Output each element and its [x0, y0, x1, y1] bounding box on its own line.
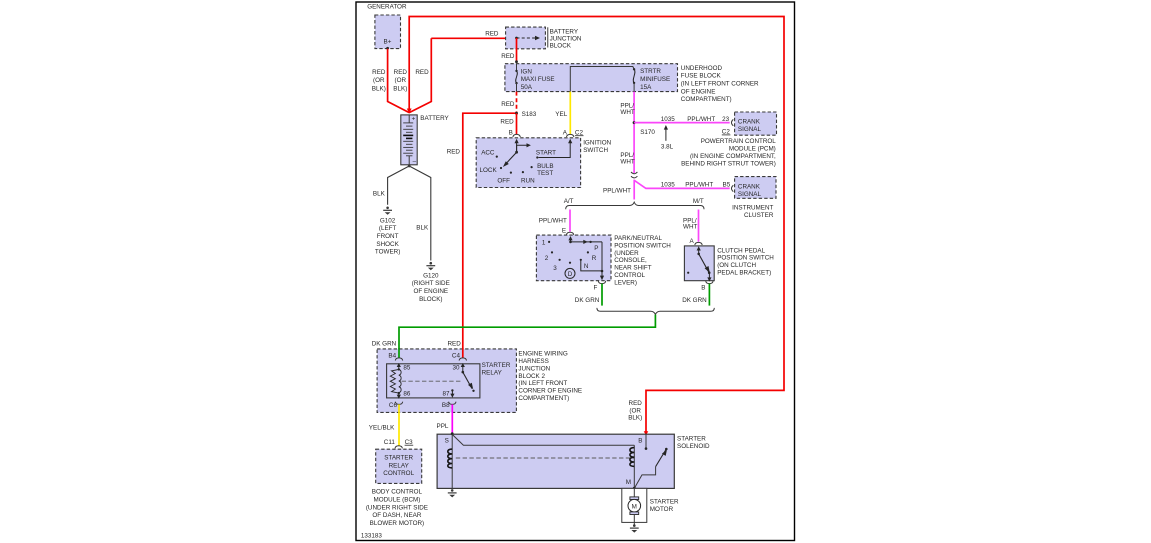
svg-text:M/T: M/T	[693, 198, 704, 205]
svg-text:STARTER: STARTER	[677, 436, 706, 443]
svg-text:PARK/NEUTRAL: PARK/NEUTRAL	[614, 235, 662, 242]
node clutch lower dot	[708, 271, 711, 274]
contact dot LOCK	[500, 167, 502, 169]
connector hat BCM	[395, 446, 402, 449]
switch branch arrow right	[517, 145, 527, 152]
connector cup C6	[395, 402, 402, 405]
svg-text:NEAR SHIFT: NEAR SHIFT	[614, 265, 652, 272]
svg-text:G102: G102	[380, 217, 396, 224]
svg-text:RED: RED	[372, 69, 386, 76]
svg-text:BULB: BULB	[537, 163, 553, 170]
svg-text:S170: S170	[640, 129, 655, 136]
relay 30 terminal arrow	[462, 367, 464, 373]
relay coil feed arrows	[398, 367, 400, 370]
node clutch input dot	[697, 253, 700, 256]
battery box	[401, 115, 417, 165]
svg-text:START: START	[536, 149, 556, 156]
fuse STRTR MINIFUSE 15A	[633, 68, 635, 70]
svg-text:DK GRN: DK GRN	[372, 341, 397, 348]
svg-text:BATTERY: BATTERY	[420, 115, 449, 122]
ground G120	[426, 262, 435, 270]
contact dot START	[536, 156, 538, 158]
wire RED junction block to fuse block	[516, 38, 518, 62]
svg-text:B5: B5	[723, 182, 731, 189]
svg-text:TEST: TEST	[537, 170, 553, 177]
generator box	[375, 15, 401, 49]
svg-text:(IN ENGINE COMPARTMENT,: (IN ENGINE COMPARTMENT,	[690, 153, 776, 160]
svg-text:BLK): BLK)	[393, 85, 407, 92]
svg-text:+: +	[412, 116, 416, 123]
svg-text:BEHIND RIGHT STRUT TOWER): BEHIND RIGHT STRUT TOWER)	[681, 160, 776, 167]
node input dot	[569, 241, 572, 244]
svg-text:WHT: WHT	[683, 224, 697, 231]
svg-text:STRTR: STRTR	[640, 68, 661, 75]
node armature tip dot	[472, 390, 474, 392]
node output dot	[601, 270, 604, 273]
relay internal dashed link	[402, 380, 463, 382]
battery plates	[403, 123, 413, 156]
svg-text:DK GRN: DK GRN	[575, 297, 600, 304]
wire PPL/WHT branch to instrument cluster crank signal	[634, 180, 730, 188]
svg-text:PPL/WHT: PPL/WHT	[685, 182, 713, 189]
svg-text:SOLENOID: SOLENOID	[677, 443, 710, 450]
svg-text:RED: RED	[394, 69, 408, 76]
svg-text:BLK: BLK	[373, 190, 386, 197]
svg-text:A/T: A/T	[564, 198, 574, 205]
svg-text:1035: 1035	[661, 182, 676, 189]
svg-text:3: 3	[553, 265, 557, 272]
wire clutch output down	[708, 273, 710, 281]
svg-text:2: 2	[545, 255, 549, 262]
arrowhead RED into solenoid B	[644, 431, 649, 435]
battery internal stem top	[408, 115, 410, 123]
svg-text:B4: B4	[388, 353, 396, 360]
svg-text:E: E	[562, 227, 566, 234]
wire M to motor	[633, 488, 635, 497]
svg-text:C11: C11	[384, 439, 396, 446]
node coil bottom dot	[398, 392, 400, 394]
relay coil winding bumps	[399, 369, 401, 393]
svg-text:ENGINE WIRING: ENGINE WIRING	[518, 351, 567, 358]
svg-text:OF DASH, NEAR: OF DASH, NEAR	[372, 512, 421, 519]
svg-text:BLK: BLK	[416, 225, 429, 232]
connector hat C4	[459, 358, 466, 361]
wire PPL/WHT A/T branch	[569, 210, 571, 232]
starter relay control box	[376, 449, 422, 483]
contact dot RUN	[522, 171, 524, 173]
svg-text:JUNCTION: JUNCTION	[518, 365, 550, 372]
wire YEL fuse block to ignition switch A	[569, 92, 571, 135]
svg-text:SIGNAL: SIGNAL	[738, 191, 762, 198]
svg-text:30: 30	[453, 365, 461, 372]
node solenoid S dot	[451, 432, 454, 435]
wire RED to battery junction block	[409, 38, 431, 112]
crank signal box PCM	[735, 112, 777, 135]
svg-text:15A: 15A	[640, 84, 652, 91]
svg-text:(UNDER RIGHT SIDE: (UNDER RIGHT SIDE	[366, 504, 428, 511]
svg-text:B+: B+	[384, 38, 392, 45]
wire N contact to output	[581, 260, 602, 271]
solenoid mechanical dashed link	[456, 457, 634, 459]
svg-text:HARNESS: HARNESS	[518, 358, 548, 365]
svg-text:G120: G120	[423, 272, 439, 279]
svg-text:JUNCTION: JUNCTION	[550, 36, 582, 43]
switch lever toward LOCK	[506, 152, 517, 164]
svg-text:RED: RED	[629, 400, 643, 407]
internal feeder wire to STRTR fuse	[570, 67, 634, 92]
wire RED (OR BLK) generator B+ to battery	[388, 49, 410, 113]
node S183	[515, 112, 518, 115]
svg-text:TOWER): TOWER)	[375, 249, 400, 256]
svg-text:CRANK: CRANK	[738, 119, 761, 126]
svg-text:1: 1	[542, 240, 546, 247]
svg-text:SWITCH: SWITCH	[583, 147, 608, 154]
svg-text:–: –	[413, 158, 417, 165]
wire YEL/BLK relay to BCM	[398, 404, 400, 445]
svg-text:CLUTCH PEDAL: CLUTCH PEDAL	[717, 247, 765, 254]
wire BLK battery to grounds split	[388, 166, 431, 261]
relay 87 contact	[451, 389, 453, 391]
svg-text:CONTROL: CONTROL	[614, 272, 645, 279]
wire PPL/WHT STRTR fuse to S170	[633, 92, 635, 173]
svg-text:BLOCK 2: BLOCK 2	[518, 373, 545, 380]
connector hat B4	[395, 358, 402, 361]
motor brush top	[630, 497, 639, 500]
wire RED fusible link dashed to S183	[516, 92, 518, 114]
connector cup B8	[449, 402, 456, 405]
svg-text:S183: S183	[522, 111, 537, 118]
wire DK GRN from park/neutral switch	[601, 284, 603, 306]
svg-text:WHT: WHT	[620, 159, 634, 166]
svg-text:STARTER: STARTER	[482, 362, 511, 369]
svg-text:RELAY: RELAY	[482, 370, 503, 377]
node ignition pivot	[515, 151, 518, 154]
wire PPL/WHT M/T branch	[698, 210, 700, 242]
node M terminal dot	[633, 487, 636, 490]
starter motor M circle	[628, 499, 641, 512]
connector cup B clutch	[706, 281, 713, 284]
svg-text:RELAY: RELAY	[389, 462, 410, 469]
wire DK GRN from clutch switch	[708, 284, 710, 306]
label leader line	[547, 27, 549, 47]
svg-text:OF ENGINE: OF ENGINE	[413, 288, 448, 295]
node junction block dot	[515, 37, 518, 40]
svg-text:85: 85	[403, 365, 411, 372]
svg-text:BODY CONTROL: BODY CONTROL	[372, 489, 423, 496]
svg-text:IGNITION: IGNITION	[583, 139, 611, 146]
wire RED stub into relay box	[462, 348, 464, 358]
connector hat B	[513, 134, 520, 137]
wire motor to ground	[633, 515, 635, 525]
starter solenoid box	[437, 434, 674, 488]
svg-text:RED: RED	[485, 30, 499, 37]
svg-text:CRANK: CRANK	[738, 183, 761, 190]
svg-text:OF ENGINE: OF ENGINE	[681, 88, 716, 95]
svg-text:87: 87	[443, 391, 451, 398]
switch input arrow E	[570, 239, 572, 242]
svg-text:SHOCK: SHOCK	[376, 241, 399, 248]
svg-text:RUN: RUN	[521, 178, 535, 185]
battery internal stem bottom	[408, 156, 410, 165]
solenoid hold-in winding	[451, 434, 453, 488]
clutch pedal position switch box	[684, 246, 714, 281]
svg-text:MOTOR: MOTOR	[650, 506, 674, 513]
svg-text:MINIFUSE: MINIFUSE	[640, 76, 670, 83]
ground below solenoid	[448, 489, 457, 497]
svg-text:LOCK: LOCK	[480, 167, 498, 174]
svg-text:OFF: OFF	[497, 178, 510, 185]
svg-text:(RIGHT SIDE: (RIGHT SIDE	[412, 280, 450, 287]
svg-text:1035: 1035	[661, 116, 676, 123]
svg-text:MAXI FUSE: MAXI FUSE	[521, 76, 555, 83]
svg-text:S: S	[445, 438, 449, 445]
svg-text:SIGNAL: SIGNAL	[738, 126, 762, 133]
svg-text:YEL/BLK: YEL/BLK	[369, 425, 395, 432]
svg-text:COMPARTMENT): COMPARTMENT)	[681, 96, 732, 103]
node battery negative dot	[408, 165, 411, 168]
dashed arrow inside junction block	[517, 37, 536, 39]
svg-text:CONSOLE,: CONSOLE,	[614, 257, 647, 264]
svg-text:PPL: PPL	[437, 423, 449, 430]
contact dots 1 2 3 D N R	[548, 241, 550, 243]
connector cup F	[598, 281, 605, 284]
merge bracket below switches	[597, 308, 714, 315]
svg-text:UNDERHOOD: UNDERHOOD	[681, 65, 723, 72]
svg-text:23: 23	[722, 116, 730, 123]
contact dot ACC	[496, 156, 498, 158]
svg-text:RED: RED	[447, 149, 461, 156]
svg-text:N: N	[584, 263, 589, 270]
node coil top dot	[398, 368, 400, 370]
svg-text:CLUSTER: CLUSTER	[744, 212, 774, 219]
crank signal box instrument cluster	[735, 177, 776, 199]
contact dot left	[687, 272, 689, 274]
svg-text:P: P	[594, 245, 598, 252]
svg-text:(ON CLUTCH: (ON CLUTCH	[717, 262, 756, 269]
svg-text:POWERTRAIN CONTROL: POWERTRAIN CONTROL	[701, 138, 777, 145]
svg-text:DK GRN: DK GRN	[682, 297, 707, 304]
svg-text:INSTRUMENT: INSTRUMENT	[732, 205, 773, 212]
svg-text:FRONT: FRONT	[377, 233, 399, 240]
relay armature blade	[463, 372, 472, 389]
wire input to P contact with arrow	[571, 241, 603, 243]
svg-text:CONTROL: CONTROL	[383, 470, 414, 477]
solenoid pull-in winding	[633, 445, 635, 488]
wire DK GRN stub into relay box	[398, 348, 400, 358]
svg-text:BATTERY: BATTERY	[550, 28, 579, 35]
svg-text:BLOCK): BLOCK)	[419, 296, 442, 303]
connector arc at instrument cluster	[731, 185, 733, 191]
engine wiring harness junction block 2 box	[377, 349, 516, 413]
svg-text:3.8L: 3.8L	[661, 144, 674, 151]
svg-text:STARTER: STARTER	[384, 455, 413, 462]
svg-text:(LEFT: (LEFT	[379, 225, 397, 232]
svg-text:LEVER): LEVER)	[614, 280, 637, 287]
node relay common dot	[462, 371, 465, 374]
svg-text:RED: RED	[415, 69, 429, 76]
ignition switch box	[476, 138, 580, 188]
svg-text:RED: RED	[501, 101, 515, 108]
starter relay inner box	[387, 364, 480, 398]
starter motor housing	[622, 488, 647, 522]
A/T M/T option bracket	[566, 202, 704, 209]
wire RED S183 loop to starter relay C4	[463, 113, 517, 357]
relay coil resistor zigzag	[390, 369, 399, 393]
svg-text:(IN LEFT FRONT: (IN LEFT FRONT	[518, 380, 567, 387]
connector hat A clutch	[695, 242, 702, 245]
svg-text:B: B	[638, 438, 642, 445]
svg-text:B: B	[701, 285, 705, 292]
svg-text:(OR: (OR	[629, 407, 641, 414]
svg-text:RED: RED	[501, 53, 515, 60]
circled D	[565, 268, 575, 278]
node contact dot right	[665, 448, 668, 451]
svg-text:IGN: IGN	[521, 68, 533, 75]
svg-text:GENERATOR: GENERATOR	[367, 4, 407, 11]
node S170	[633, 121, 636, 124]
wire PPL/WHT below connector	[633, 180, 635, 200]
svg-text:MODULE (PCM): MODULE (PCM)	[729, 146, 776, 153]
svg-text:CORNER OF ENGINE: CORNER OF ENGINE	[518, 388, 582, 395]
svg-text:BLOWER MOTOR): BLOWER MOTOR)	[370, 520, 424, 527]
wire S to pull-in winding feed	[452, 434, 634, 445]
wire right side down to F output	[601, 242, 603, 278]
svg-text:YEL: YEL	[555, 111, 567, 118]
border frame	[356, 2, 795, 541]
motor brush bottom	[630, 512, 639, 515]
arrowhead RED into battery	[407, 109, 412, 114]
fuse IGN MAXI FUSE 50A	[516, 64, 518, 71]
svg-text:PEDAL BRACKET): PEDAL BRACKET)	[717, 270, 771, 277]
ground below starter motor	[630, 524, 639, 532]
park/neutral position switch box	[536, 235, 611, 281]
wire contact to M terminal	[634, 467, 655, 489]
ground G102	[383, 207, 392, 215]
svg-text:PPL/WHT: PPL/WHT	[539, 217, 567, 224]
svg-text:FUSE BLOCK: FUSE BLOCK	[681, 73, 722, 80]
svg-text:(OR: (OR	[373, 77, 385, 84]
connector arc at PCM	[731, 119, 733, 125]
contact dot OFF	[510, 172, 512, 174]
svg-text:PPL/WHT: PPL/WHT	[603, 188, 631, 195]
svg-text:86: 86	[403, 391, 411, 398]
svg-text:BLK): BLK)	[628, 415, 642, 422]
svg-text:BLOCK: BLOCK	[550, 43, 572, 50]
connector hat E	[566, 232, 573, 235]
svg-text:(OR: (OR	[395, 77, 407, 84]
svg-text:BLK): BLK)	[372, 85, 386, 92]
connector hat A	[567, 134, 574, 137]
svg-text:(UNDER: (UNDER	[614, 250, 639, 257]
wire PPL relay to solenoid S	[451, 404, 453, 434]
svg-text:POSITION SWITCH: POSITION SWITCH	[614, 242, 671, 249]
svg-text:(IN LEFT FRONT CORNER: (IN LEFT FRONT CORNER	[681, 81, 759, 88]
wire DK GRN merged to starter relay B4	[399, 315, 655, 358]
node dot above fuse block	[515, 60, 518, 63]
battery junction block box	[506, 27, 546, 49]
wire RED battery feed up and across top to right side	[409, 17, 784, 435]
svg-text:D: D	[568, 271, 573, 278]
svg-text:POSITION SWITCH: POSITION SWITCH	[717, 255, 774, 262]
3.8L pointer arrow	[665, 128, 667, 141]
wire PPL/WHT circuit 1035 to PCM crank signal	[634, 122, 730, 124]
solenoid moving contact	[656, 449, 667, 467]
wire START position to terminal A	[539, 142, 571, 158]
svg-text:C4: C4	[452, 353, 461, 360]
solenoid B post	[645, 434, 647, 447]
svg-text:COMPARTMENT): COMPARTMENT)	[518, 395, 569, 402]
svg-text:A: A	[690, 238, 695, 245]
svg-text:F: F	[594, 285, 598, 292]
contact dot BULB TEST	[531, 166, 533, 168]
switch B terminal arrow	[516, 142, 518, 153]
svg-text:133183: 133183	[361, 532, 383, 539]
svg-text:M: M	[626, 479, 631, 486]
svg-text:B: B	[509, 130, 513, 137]
svg-text:M: M	[632, 504, 637, 511]
clutch switch blade	[699, 254, 709, 272]
svg-text:50A: 50A	[521, 84, 533, 91]
node B+ terminal dot	[386, 47, 389, 50]
svg-text:WHT: WHT	[620, 109, 634, 116]
underhood fuse block box	[505, 64, 678, 92]
svg-text:STARTER: STARTER	[650, 499, 679, 506]
svg-text:ACC: ACC	[481, 149, 495, 156]
inline connector on PPL/WHT wire	[631, 172, 637, 174]
clutch switch input arrow	[698, 249, 700, 254]
contact dot on line	[589, 241, 591, 243]
svg-text:R: R	[592, 255, 597, 262]
svg-text:RED: RED	[448, 341, 462, 348]
svg-text:MODULE (BCM): MODULE (BCM)	[373, 497, 420, 504]
svg-text:PPL/WHT: PPL/WHT	[687, 116, 715, 123]
wire RED S183 to ignition switch B	[516, 113, 518, 134]
svg-text:RED: RED	[500, 119, 514, 126]
